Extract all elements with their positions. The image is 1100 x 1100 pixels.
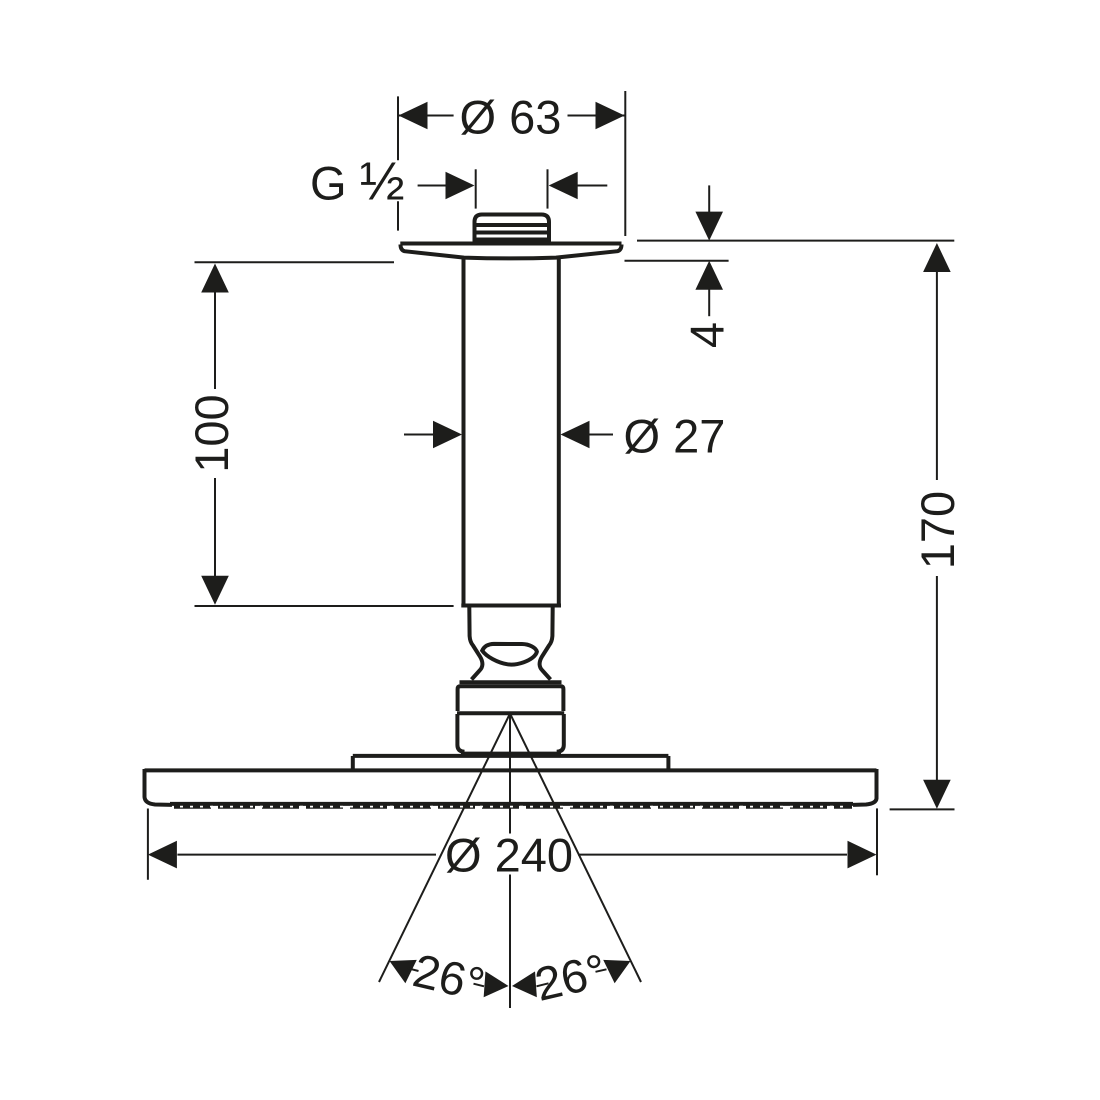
dimension G1/2 arrow left xyxy=(446,172,475,200)
dimension Ø27 leader left xyxy=(404,434,434,436)
angle 26 left stub a xyxy=(408,968,419,971)
shower disc top edge xyxy=(145,768,877,772)
dimension 170 bottom reference line xyxy=(890,808,955,810)
dimension 100 arrow up xyxy=(201,264,229,293)
dimension Ø63 line xyxy=(399,115,625,117)
dimension Ø240 extension line right xyxy=(876,808,878,875)
svg-text:170: 170 xyxy=(911,491,964,569)
svg-text:Ø 240: Ø 240 xyxy=(445,829,573,882)
dimension 170 line xyxy=(936,272,938,806)
dimension 4 upper leader xyxy=(708,185,710,212)
spray cone left line xyxy=(379,714,510,983)
ceiling plate underside xyxy=(401,245,622,259)
dimension G1/2 tick right xyxy=(547,169,549,208)
dimension G1/2 tick left xyxy=(475,169,477,208)
dimension Ø27 arrow left xyxy=(433,421,462,449)
angle 26 left inner arrow xyxy=(484,971,510,999)
angle 26 left stub b xyxy=(474,984,485,987)
dimension Ø240 arrow left xyxy=(148,841,177,869)
nut upper body xyxy=(458,686,564,711)
nut divider xyxy=(457,711,564,715)
dimension Ø63 extension line right xyxy=(624,91,626,236)
svg-text:G ½: G ½ xyxy=(310,152,405,212)
shower disc spray face nozzle slots xyxy=(180,806,848,808)
shower disc spray face top line xyxy=(170,802,853,806)
shower disc right edge xyxy=(853,769,877,805)
pipe left wall xyxy=(462,259,466,605)
ball joint neck left xyxy=(469,607,482,680)
dimension 4 arrow up xyxy=(695,261,723,290)
threaded nipple G1/2 xyxy=(475,215,550,244)
dimension 100 bottom reference line xyxy=(195,605,454,607)
dimension G1/2 leader left xyxy=(418,185,447,187)
angle 26 left outer arrow xyxy=(384,949,417,983)
nut lower body left xyxy=(457,714,464,752)
svg-text:4: 4 xyxy=(681,322,734,348)
dimension 100 arrow down xyxy=(201,576,229,605)
pipe right wall xyxy=(557,259,561,605)
dimension Ø240 arrow right xyxy=(848,841,877,869)
dimension Ø240 extension line left xyxy=(147,809,149,880)
spray cone right line xyxy=(510,714,641,983)
ball joint ball xyxy=(482,644,537,665)
angle 26 right outer arrow xyxy=(603,949,636,983)
svg-text:Ø 63: Ø 63 xyxy=(460,91,562,144)
dimension Ø27 leader right xyxy=(590,434,614,436)
shower disc left edge xyxy=(145,769,173,805)
shower disc spray face nozzle bars xyxy=(174,805,852,809)
threaded nipple thread lines xyxy=(476,225,549,240)
nut lower body right xyxy=(557,714,564,752)
pipe bottom edge xyxy=(461,604,561,608)
dimension 100 top reference line xyxy=(195,261,395,263)
nut lip xyxy=(460,680,562,684)
angle 26 right stub b xyxy=(596,969,607,972)
svg-text:Ø 27: Ø 27 xyxy=(624,410,726,463)
dimension 100 line xyxy=(214,292,216,576)
nut bottom edge xyxy=(461,752,561,756)
head platform left edge xyxy=(351,756,355,770)
head platform right edge xyxy=(666,756,670,770)
dimension 4 arrow down xyxy=(695,212,723,241)
dimension 170 arrow down xyxy=(923,780,951,809)
dimension 4 lower leader xyxy=(708,290,710,317)
spray cone center line xyxy=(509,714,511,1009)
dimension 4 top reference line xyxy=(637,240,954,242)
dimension G1/2 arrow right xyxy=(549,172,578,200)
dimension 4 bottom reference line xyxy=(625,260,729,262)
ceiling plate top edge xyxy=(400,242,621,246)
dimension G1/2 leader right xyxy=(578,185,608,187)
dimension Ø63 arrow left xyxy=(399,102,428,130)
dimension Ø240 line left xyxy=(177,854,436,856)
dimension Ø240 line right xyxy=(578,854,847,856)
head platform top xyxy=(353,754,669,758)
dimension Ø63 extension line left xyxy=(397,96,399,230)
angle 26 right inner arrow xyxy=(511,971,537,999)
ball joint neck right xyxy=(540,607,553,680)
angle 26 right stub a xyxy=(537,983,549,986)
dimension Ø63 arrow right xyxy=(596,102,625,130)
dimension 170 arrow up xyxy=(923,243,951,272)
svg-text:100: 100 xyxy=(185,394,238,472)
dimension Ø27 arrow right xyxy=(561,421,590,449)
